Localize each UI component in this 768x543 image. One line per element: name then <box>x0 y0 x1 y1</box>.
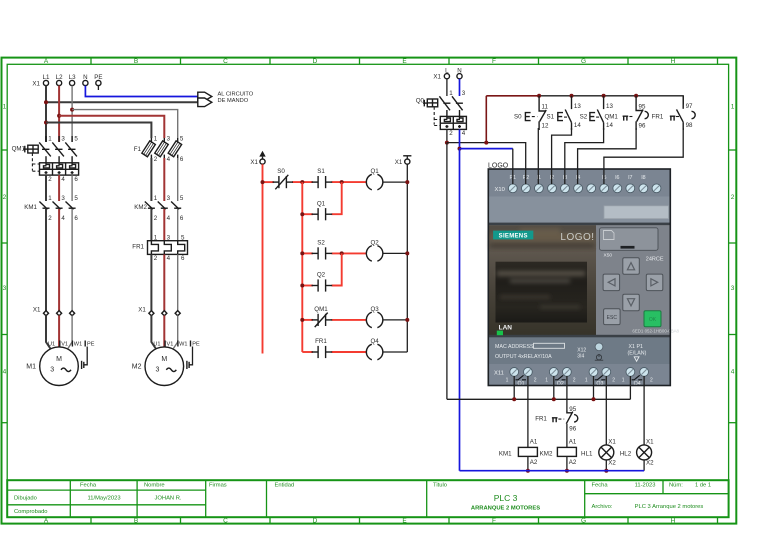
svg-text:X1: X1 <box>608 438 616 445</box>
node bus Q2 <box>552 397 556 401</box>
svg-text:QM1: QM1 <box>12 146 26 153</box>
wire L down to Q0 <box>446 79 448 96</box>
PE connection M1 <box>82 347 88 370</box>
svg-text:JOHAN R.: JOHAN R. <box>154 496 181 502</box>
svg-text:X10: X10 <box>495 187 505 193</box>
wire U1 to motor <box>46 315 51 349</box>
svg-text:1: 1 <box>731 104 735 111</box>
svg-text:A1: A1 <box>530 438 538 445</box>
svg-text:Dibujado: Dibujado <box>14 496 37 502</box>
terminals X10 (12 screws) <box>508 184 660 193</box>
svg-text:FR1: FR1 <box>535 415 547 422</box>
node rung1 rail <box>405 180 409 184</box>
svg-text:PE: PE <box>87 341 95 347</box>
svg-text:KM2: KM2 <box>540 450 553 457</box>
svg-text:2: 2 <box>449 130 453 137</box>
node rung2 left <box>300 251 304 255</box>
svg-text:X2: X2 <box>646 460 654 467</box>
svg-text:F: F <box>492 517 496 524</box>
svg-text:V1: V1 <box>167 341 174 347</box>
svg-text:2: 2 <box>48 176 52 183</box>
wire Q2 branch <box>302 253 341 285</box>
wire U1 to motor M2 <box>151 315 156 349</box>
svg-text:LOGO!: LOGO! <box>560 232 594 243</box>
terminal X1-L2 <box>56 74 63 86</box>
svg-text:1: 1 <box>48 136 52 143</box>
contactor coil KM2 <box>540 438 577 466</box>
svg-text:13: 13 <box>606 103 613 110</box>
node L3 tap <box>70 108 74 112</box>
svg-text:X1: X1 <box>395 159 403 166</box>
wire FR1-M2 pole2 <box>163 254 165 311</box>
svg-text:(E/LAN): (E/LAN) <box>628 350 647 356</box>
svg-text:L: L <box>445 67 449 74</box>
svg-text:S1: S1 <box>547 114 555 121</box>
svg-text:Q2: Q2 <box>317 272 326 279</box>
wire U1 KM1-M1 <box>45 209 47 311</box>
arrow to control circuit (upper) <box>198 92 212 101</box>
svg-text:Núm:: Núm: <box>669 483 683 489</box>
terminal X1-L3 <box>69 74 76 86</box>
svg-text:1: 1 <box>48 195 52 202</box>
svg-text:U1: U1 <box>48 341 55 347</box>
svg-text:2: 2 <box>154 215 158 222</box>
svg-text:Entidad: Entidad <box>275 483 295 489</box>
svg-text:X2: X2 <box>608 460 616 467</box>
svg-text:V1: V1 <box>61 341 68 347</box>
node N bus KM2 <box>565 469 569 473</box>
wire Q2-2 down <box>566 376 568 411</box>
svg-text:14: 14 <box>606 122 613 129</box>
svg-text:6: 6 <box>74 176 78 183</box>
svg-text:DE MANDO: DE MANDO <box>218 98 249 104</box>
node bus Q3 <box>592 397 596 401</box>
contact QM1 aux (NC) <box>312 306 333 327</box>
wire W1 KM1-M1 <box>71 209 73 311</box>
svg-text:X11: X11 <box>494 370 504 376</box>
svg-text:OUTPUT 4xRELAY/10A: OUTPUT 4xRELAY/10A <box>495 354 552 360</box>
wire F1-KM2 pole2 <box>163 158 165 201</box>
svg-text:HL2: HL2 <box>620 450 632 457</box>
svg-text:X1: X1 <box>33 307 41 314</box>
svg-text:98: 98 <box>686 122 693 129</box>
terminal X1-PE <box>94 74 102 90</box>
svg-text:X1: X1 <box>433 74 441 81</box>
svg-text:11: 11 <box>542 103 549 110</box>
svg-text:X1: X1 <box>32 81 40 88</box>
svg-text:6: 6 <box>180 215 184 222</box>
wire L bus to P2 <box>447 143 526 184</box>
svg-text:KM1: KM1 <box>499 450 512 457</box>
node N bus HL1 <box>604 469 608 473</box>
svg-text:Q1: Q1 <box>317 200 326 207</box>
svg-text:12: 12 <box>542 123 549 130</box>
LCD screen <box>496 262 588 323</box>
node L2 tap <box>57 114 61 118</box>
svg-text:S2: S2 <box>317 240 325 247</box>
wire W1 to motor <box>67 315 72 349</box>
wire N blue to control <box>85 86 197 97</box>
wire N down to lamp bus <box>459 149 461 471</box>
svg-text:1: 1 <box>154 136 158 143</box>
svg-text:L2: L2 <box>56 74 63 81</box>
svg-text:3: 3 <box>167 195 171 202</box>
wire Q3-1 to L bus <box>593 376 595 399</box>
svg-text:LAN: LAN <box>499 324 513 331</box>
svg-text:G: G <box>581 517 586 524</box>
wire Q4-1 to L bus <box>629 376 631 399</box>
wire L1 QM1-KM1 <box>45 175 47 201</box>
node bus S2 <box>602 94 606 98</box>
svg-text:SIEMENS: SIEMENS <box>499 234 528 240</box>
svg-text:2: 2 <box>573 378 576 384</box>
svg-text:3: 3 <box>50 367 54 374</box>
svg-text:FR1: FR1 <box>315 338 327 345</box>
contactor KM1 <box>24 195 78 222</box>
node rung1 a <box>300 180 304 184</box>
svg-text:B: B <box>134 58 138 65</box>
svg-text:L3: L3 <box>69 74 76 81</box>
node rung1 rail-left <box>261 180 265 184</box>
wire Q1 branch <box>302 182 341 214</box>
wire L1 to F1 <box>46 123 151 139</box>
svg-text:4: 4 <box>61 215 65 222</box>
wire L2 column <box>58 86 60 142</box>
terminal X1 motor M2 (3 pins) <box>138 307 180 316</box>
contact S2 (NO) <box>312 240 333 260</box>
svg-text:QM1: QM1 <box>604 114 618 121</box>
svg-text:L1: L1 <box>43 74 50 81</box>
svg-text:B: B <box>134 517 138 524</box>
fuse F1 (3 poles) <box>134 136 184 163</box>
svg-text:5: 5 <box>74 136 78 143</box>
arrow to control circuit (lower) <box>198 98 212 107</box>
node bus QM1 <box>634 94 638 98</box>
svg-text:A2: A2 <box>569 459 577 466</box>
breaker Q0 <box>416 90 467 137</box>
wire N down to Q0 <box>459 79 461 96</box>
svg-text:2: 2 <box>731 194 735 201</box>
wire rung4 black to rail <box>383 351 408 353</box>
svg-text:24RCE: 24RCE <box>646 257 664 263</box>
wire Q2-1 to L bus <box>553 376 555 399</box>
svg-text:G: G <box>581 58 586 65</box>
node rung1 b <box>340 180 344 184</box>
svg-text:U1: U1 <box>153 341 160 347</box>
wire L3 to F1 <box>72 110 178 138</box>
wire S2 to I3 <box>565 128 604 184</box>
node bus Q1 <box>512 397 516 401</box>
svg-text:I8: I8 <box>641 175 645 181</box>
wire N Q0 down <box>459 129 461 148</box>
svg-text:2: 2 <box>154 156 158 163</box>
svg-text:6: 6 <box>181 255 185 262</box>
wire L output bus <box>447 398 631 400</box>
svg-text:2: 2 <box>650 378 653 384</box>
svg-text:6: 6 <box>180 156 184 163</box>
svg-text:W1: W1 <box>179 341 187 347</box>
wire L2 QM1-KM1 <box>58 175 60 201</box>
wire rung3 black to rail <box>383 319 408 321</box>
terminal X1 motor M1 (3 pins) <box>33 307 75 316</box>
svg-text:96: 96 <box>639 123 646 130</box>
svg-text:4: 4 <box>167 156 171 163</box>
wire L2 to F1 <box>59 116 164 138</box>
wire V1 to motor <box>58 315 60 347</box>
lamp HL1 <box>581 438 616 466</box>
contact QM1 aux input (NC trip) pins 95-96 <box>604 96 648 130</box>
wire L Q0 to node <box>446 129 448 142</box>
svg-text:D: D <box>313 517 318 524</box>
svg-text:C: C <box>223 58 228 65</box>
node rung2 b <box>340 251 344 255</box>
svg-text:13: 13 <box>574 103 581 110</box>
wire KM2-FR1 pole1 <box>150 209 152 241</box>
svg-text:4: 4 <box>61 176 65 183</box>
wire L1 column <box>45 86 47 142</box>
svg-text:1: 1 <box>449 90 453 97</box>
contactor coil KM1 <box>499 438 538 466</box>
PLC module LOGO! 24RCE <box>488 169 679 387</box>
svg-text:AL CIRCUITO: AL CIRCUITO <box>218 91 254 97</box>
svg-text:4: 4 <box>462 130 466 137</box>
thermal relay FR1 (power) <box>132 235 187 262</box>
svg-text:S1: S1 <box>317 168 325 175</box>
contact S1 (NO) <box>312 168 333 188</box>
coil Q3 <box>366 306 383 328</box>
wire contact bus maroon part <box>486 95 539 97</box>
svg-text:F1: F1 <box>134 146 142 153</box>
wire HL1 to N bus <box>605 460 607 471</box>
wire rung3 red segments <box>302 319 366 321</box>
svg-text:4: 4 <box>731 369 735 376</box>
motor M1 <box>26 341 94 386</box>
svg-text:3: 3 <box>61 195 65 202</box>
svg-text:6: 6 <box>74 215 78 222</box>
svg-text:97: 97 <box>686 103 693 110</box>
wire KM2-FR1 pole3 <box>177 209 179 241</box>
svg-text:11-2023: 11-2023 <box>635 483 656 489</box>
contact Q1 aux (NO) <box>312 200 333 220</box>
svg-text:FR1: FR1 <box>132 244 144 251</box>
svg-text:C: C <box>223 517 228 524</box>
node rung2 rail <box>405 251 409 255</box>
svg-text:4: 4 <box>3 369 7 376</box>
svg-text:4: 4 <box>167 255 171 262</box>
svg-text:S0: S0 <box>277 168 285 175</box>
svg-text:PLC 3: PLC 3 <box>494 493 518 503</box>
title block <box>7 480 728 517</box>
svg-text:A2: A2 <box>530 459 538 466</box>
wire L3 column <box>71 86 73 142</box>
svg-text:MAC ADDRESS: MAC ADDRESS <box>495 344 534 350</box>
wire N to P1 <box>460 148 513 150</box>
wire right rail <box>406 164 408 352</box>
svg-text:1: 1 <box>585 378 588 384</box>
svg-text:F: F <box>492 58 496 65</box>
node rung3 left <box>300 318 304 322</box>
wire Q1-2 to KM1 coil <box>527 376 529 448</box>
svg-text:5: 5 <box>180 195 184 202</box>
wire left rail (red) <box>262 164 264 353</box>
wire N lamp bus (blue) <box>460 470 645 472</box>
svg-text:I7: I7 <box>628 175 632 181</box>
keypad buttons <box>603 258 663 327</box>
svg-text:QM1: QM1 <box>314 306 328 313</box>
node Q1 branch <box>300 212 304 216</box>
svg-text:KM1: KM1 <box>24 204 37 211</box>
motor M2 <box>132 341 200 386</box>
wire F1-KM2 pole3 <box>177 158 179 201</box>
svg-text:5: 5 <box>74 195 78 202</box>
node Q2 branch <box>300 284 304 288</box>
svg-text:X1: X1 <box>250 159 258 166</box>
wire W1 to motor M2 <box>173 315 178 349</box>
wire QM1 to I4 <box>578 128 637 184</box>
terminal X1 ladder right <box>395 156 412 166</box>
svg-text:1: 1 <box>622 378 625 384</box>
wire rung4 red segments <box>302 351 366 353</box>
face blur streaks <box>490 228 594 248</box>
wire feeder vertical red <box>301 182 303 352</box>
contact S0 (NC) <box>273 168 294 189</box>
contact FR1 aux (NO) <box>312 338 333 358</box>
svg-text:M: M <box>161 356 167 363</box>
contact FR1 trip (NC) pins 95-96 <box>535 406 578 433</box>
svg-text:Fecha: Fecha <box>592 483 609 489</box>
svg-text:1: 1 <box>3 104 7 111</box>
svg-text:ARRANQUE 2 MOTORES: ARRANQUE 2 MOTORES <box>471 506 540 512</box>
svg-text:2: 2 <box>48 215 52 222</box>
node L riser <box>484 141 488 145</box>
svg-text:Archivo:: Archivo: <box>592 504 613 510</box>
SD slot panel <box>600 228 659 251</box>
svg-text:PLC 3 Arranque 2 motores: PLC 3 Arranque 2 motores <box>635 504 704 510</box>
svg-text:KM2: KM2 <box>134 204 147 211</box>
coil Q2 <box>366 240 383 262</box>
wire L down to output bus <box>446 143 448 400</box>
svg-text:6ED1 052-1HB00-0BA8: 6ED1 052-1HB00-0BA8 <box>632 329 679 334</box>
svg-text:N: N <box>83 74 87 81</box>
wire KM2 to N bus <box>566 456 568 470</box>
svg-text:2: 2 <box>154 255 158 262</box>
contact FR1 aux input (NO) pins 97-98 <box>652 96 696 130</box>
coil Q1 <box>366 168 383 190</box>
svg-text:Titulo: Titulo <box>433 483 447 489</box>
svg-text:Fecha: Fecha <box>80 483 97 489</box>
contact Q2 aux (NO) <box>312 272 333 292</box>
wire F1-KM2 pole1 <box>150 158 152 201</box>
svg-text:D: D <box>313 58 318 65</box>
svg-text:1: 1 <box>154 195 158 202</box>
wire rung2 black to rail <box>383 252 408 254</box>
wire L3 QM1-KM1 <box>71 175 73 201</box>
contactor KM2 <box>134 195 184 222</box>
contact S2 input (NO pushbutton) pins 13-14 <box>580 96 614 130</box>
wire FR1-M2 pole1 <box>150 254 152 311</box>
svg-text:M2: M2 <box>132 364 142 371</box>
wire stubs into X10 <box>513 169 604 184</box>
breaker QM1 <box>12 136 79 183</box>
svg-text:HL1: HL1 <box>581 450 593 457</box>
wire contact bus black part <box>539 96 683 105</box>
svg-text:Comprobado: Comprobado <box>14 509 48 515</box>
coil Q4 <box>366 338 383 360</box>
wire Q4-2 to HL2 <box>643 376 645 445</box>
wire Q3-2 to HL1 <box>605 376 607 445</box>
wire V1 KM1-M1 <box>58 209 60 311</box>
wire Q1-1 to L bus <box>513 376 515 399</box>
node bus S0 <box>537 94 541 98</box>
terminal X1 ladder left <box>250 151 265 166</box>
svg-text:E: E <box>402 517 407 524</box>
svg-text:S2: S2 <box>580 114 588 121</box>
svg-text:E: E <box>402 58 407 65</box>
svg-text:OK: OK <box>649 317 657 323</box>
svg-text:X1: X1 <box>646 438 654 445</box>
wire S0 to I1 <box>537 128 539 184</box>
node bus S1 <box>570 94 574 98</box>
svg-text:4: 4 <box>167 215 171 222</box>
svg-text:N: N <box>457 67 461 74</box>
svg-text:1: 1 <box>506 378 509 384</box>
wire S1 to I2 <box>552 128 572 184</box>
svg-text:X1: X1 <box>138 307 146 314</box>
PE connection M2 <box>187 347 193 370</box>
svg-text:3: 3 <box>462 90 466 97</box>
SIEMENS logo <box>493 231 533 240</box>
contact S1 input (NO pushbutton) pins 13-14 <box>547 96 582 130</box>
terminal X1-L (plc) <box>444 67 449 78</box>
wire FR1-M2 pole3 <box>177 254 179 311</box>
svg-text:3: 3 <box>3 285 7 292</box>
svg-text:A: A <box>44 517 49 524</box>
svg-text:S0: S0 <box>514 114 522 121</box>
node L1 tap2 <box>44 121 48 125</box>
svg-text:1: 1 <box>545 378 548 384</box>
wire V1 to motor M2 <box>163 315 165 347</box>
contact S0 input (NC pushbutton) pins 11-12 <box>514 96 549 130</box>
svg-text:5: 5 <box>180 136 184 143</box>
svg-text:I6: I6 <box>615 175 619 181</box>
node L1 tap <box>44 100 48 104</box>
svg-text:95: 95 <box>639 103 646 110</box>
terminal X1-L1 <box>43 74 50 86</box>
svg-text:H: H <box>671 58 676 65</box>
svg-text:96: 96 <box>569 426 576 433</box>
node N bus KM1 <box>526 469 530 473</box>
lamp HL2 <box>620 438 654 466</box>
wire rung1 black to rail <box>383 181 408 183</box>
svg-text:3: 3 <box>731 285 735 292</box>
svg-text:A: A <box>44 58 49 65</box>
svg-text:3: 3 <box>167 136 171 143</box>
svg-text:1 de 1: 1 de 1 <box>695 483 711 489</box>
svg-text:M1: M1 <box>26 364 36 371</box>
svg-text:3: 3 <box>156 367 160 374</box>
terminal X1-N (plc) <box>457 67 462 78</box>
svg-text:PE: PE <box>94 74 102 81</box>
wire FR1 to I5 <box>604 128 683 184</box>
svg-text:2: 2 <box>534 378 537 384</box>
svg-text:Firmas: Firmas <box>209 483 227 489</box>
node rung3 rail <box>405 318 409 322</box>
svg-text:14: 14 <box>574 122 581 129</box>
svg-text:3I4: 3I4 <box>577 353 584 359</box>
svg-text:2: 2 <box>612 378 615 384</box>
svg-text:11/May/2023: 11/May/2023 <box>87 496 120 502</box>
wire rung1 red segments <box>263 181 367 183</box>
